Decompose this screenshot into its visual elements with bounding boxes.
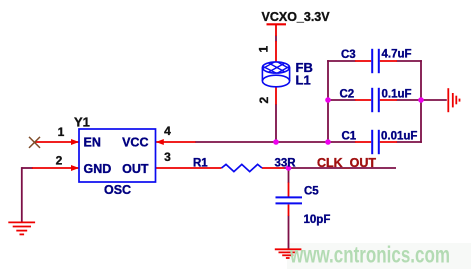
svg-text:0.01uF: 0.01uF	[381, 131, 417, 143]
svg-text:C3: C3	[341, 49, 356, 61]
svg-text:2: 2	[257, 97, 271, 104]
svg-text:4: 4	[164, 124, 171, 138]
svg-text:CLK_OUT: CLK_OUT	[317, 156, 376, 170]
svg-text:10pF: 10pF	[304, 214, 331, 226]
svg-text:EN: EN	[84, 136, 101, 150]
svg-text:4.7uF: 4.7uF	[382, 49, 412, 61]
svg-text:OUT: OUT	[122, 162, 149, 176]
svg-text:2: 2	[56, 154, 63, 168]
svg-text:C2: C2	[340, 89, 355, 101]
svg-text:0.1uF: 0.1uF	[382, 89, 412, 101]
svg-text:VCXO_3.3V: VCXO_3.3V	[262, 10, 331, 24]
svg-text:33R: 33R	[275, 158, 297, 170]
svg-text:3: 3	[164, 150, 171, 164]
svg-text:C1: C1	[342, 131, 357, 143]
svg-text:1: 1	[58, 125, 65, 139]
svg-text:Y1: Y1	[74, 115, 90, 130]
svg-text:OSC: OSC	[104, 183, 131, 197]
svg-text:VCC: VCC	[122, 136, 148, 150]
svg-text:www.cntronics.com: www.cntronics.com	[289, 242, 450, 268]
svg-text:L1: L1	[296, 73, 311, 88]
svg-text:C5: C5	[304, 186, 319, 198]
svg-text:GND: GND	[84, 162, 112, 176]
svg-text:R1: R1	[193, 158, 208, 170]
svg-text:1: 1	[257, 46, 271, 53]
